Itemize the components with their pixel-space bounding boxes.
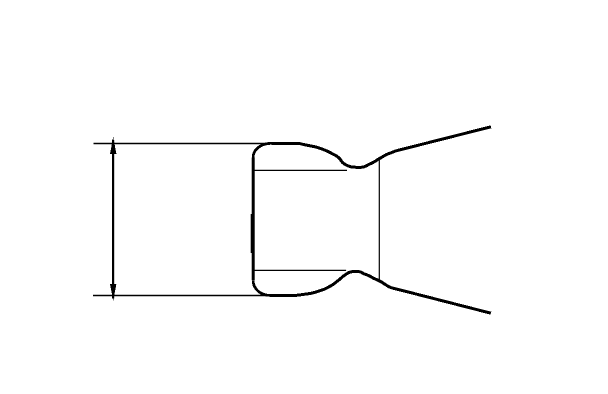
nozzle tangent section line — [378, 160, 380, 280]
chamber left wall — [252, 158, 255, 281]
dimension arrowhead top — [110, 137, 116, 154]
chamber bottom wall — [270, 294, 298, 297]
dimension arrowhead bottom — [110, 284, 116, 301]
dimension line — [112, 140, 114, 299]
chamber bottom-left corner — [253, 280, 269, 295]
extension line bottom — [93, 295, 266, 297]
chamber top wall — [272, 142, 300, 145]
converging and diverging contour top — [299, 127, 491, 168]
chamber top-left corner — [253, 143, 271, 157]
chamber left wall thickened segment — [251, 214, 255, 253]
extension line top — [94, 143, 273, 145]
inner wall line top — [254, 169, 347, 171]
inner wall line bottom — [254, 269, 346, 271]
converging and diverging contour bottom — [297, 271, 491, 313]
